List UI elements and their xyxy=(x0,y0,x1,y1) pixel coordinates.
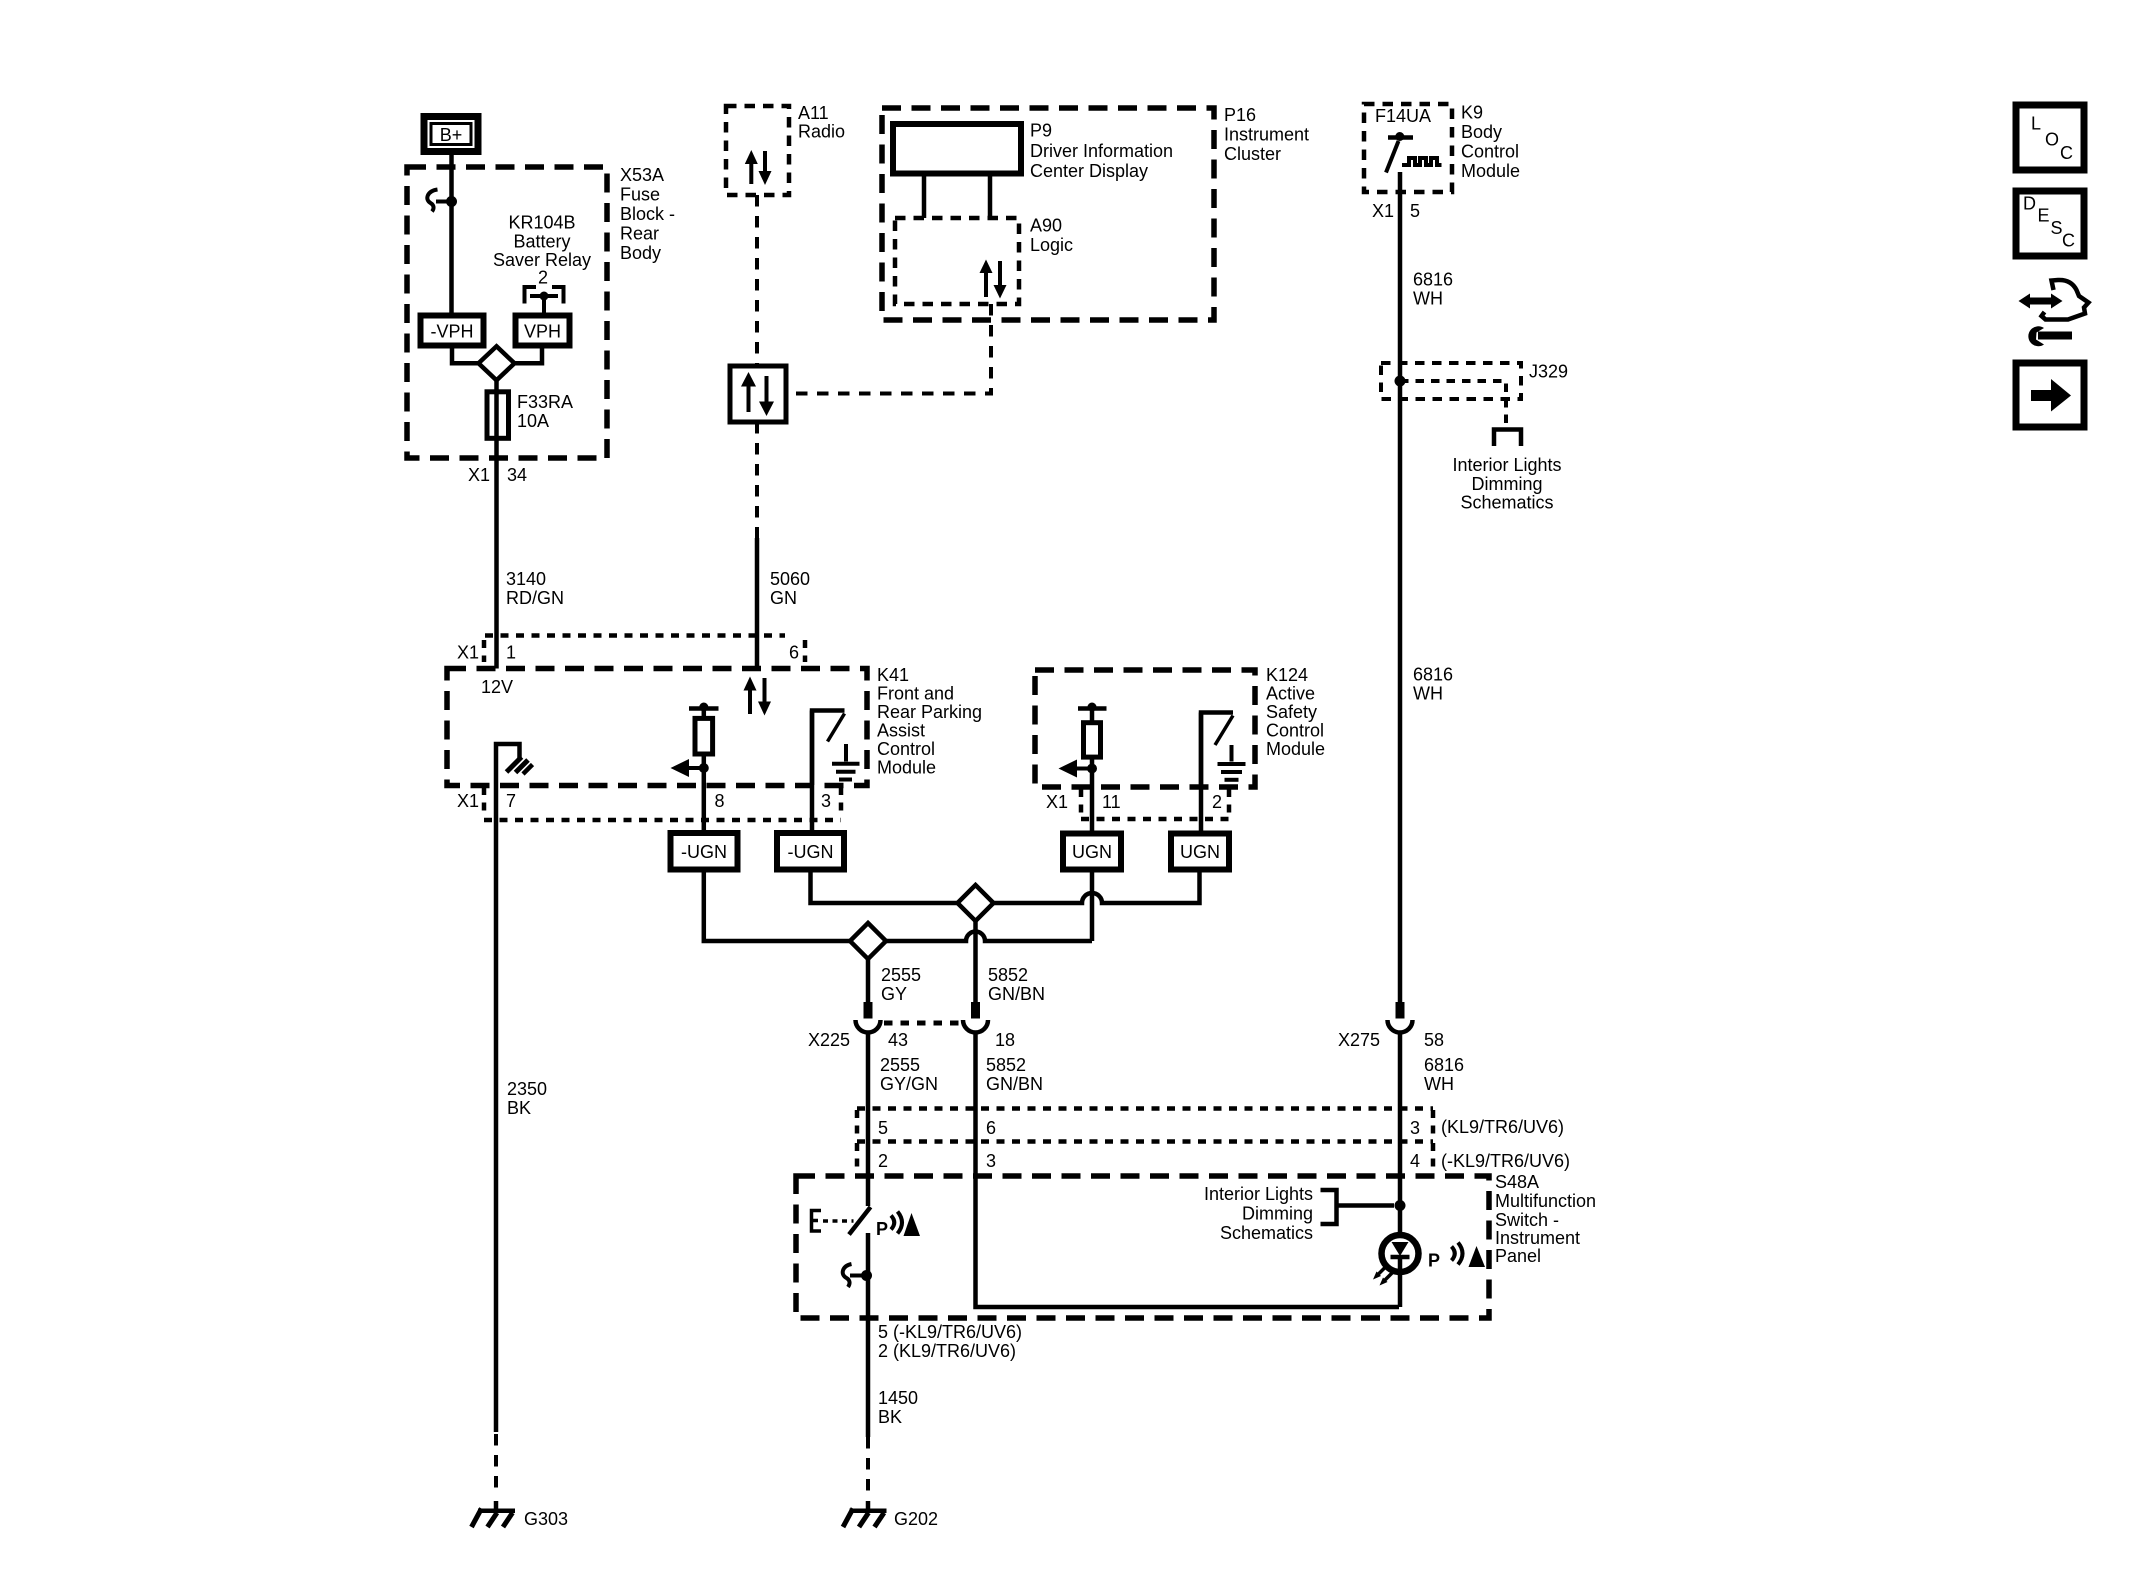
svg-text:Instrument: Instrument xyxy=(1495,1228,1580,1248)
wire diamond1 to X225 pin 18 xyxy=(973,921,978,1002)
svg-text:GY: GY xyxy=(881,984,907,1004)
internal resistor with arrow at pin 8 xyxy=(671,703,719,778)
svg-text:WH: WH xyxy=(1424,1074,1454,1094)
svg-text:X53A: X53A xyxy=(620,165,664,185)
svg-text:5852: 5852 xyxy=(988,965,1028,985)
wire B+ to -VPH xyxy=(449,155,454,316)
svg-text:-UGN: -UGN xyxy=(681,842,727,862)
wire X225-18 into S48A to LED return xyxy=(976,1033,1400,1308)
svg-text:2: 2 xyxy=(878,1151,888,1171)
S48A option pin row (KL9/TR6/UV6) xyxy=(857,1109,1570,1175)
svg-text:WH: WH xyxy=(1413,289,1443,309)
svg-text:UGN: UGN xyxy=(1072,842,1112,862)
label K41 Front and Rear Parking Assist Control Module xyxy=(877,665,982,778)
svg-text:S: S xyxy=(2051,218,2063,238)
main wire K9 to X275 xyxy=(1398,172,1403,1002)
serial data arrows in A90 xyxy=(980,260,1007,299)
svg-text:5 (-KL9/TR6/UV6): 5 (-KL9/TR6/UV6) xyxy=(878,1322,1022,1342)
svg-text:Interior Lights: Interior Lights xyxy=(1204,1184,1313,1204)
dashed wire A11 to arrow box xyxy=(755,195,759,366)
svg-text:C: C xyxy=(2062,231,2075,251)
svg-text:Rear: Rear xyxy=(620,224,659,244)
svg-text:-VPH: -VPH xyxy=(430,322,473,342)
svg-text:GN: GN xyxy=(770,588,797,608)
svg-text:5: 5 xyxy=(878,1118,888,1138)
DESC icon box xyxy=(2016,191,2084,256)
svg-text:X1: X1 xyxy=(1372,201,1394,221)
svg-text:X1: X1 xyxy=(468,465,490,485)
svg-text:X1: X1 xyxy=(457,643,479,663)
svg-text:5852: 5852 xyxy=(986,1055,1026,1075)
net label UGN (4) xyxy=(1171,834,1229,870)
svg-text:Cluster: Cluster xyxy=(1224,144,1281,164)
svg-text:X1: X1 xyxy=(457,791,479,811)
dotted connector link X225 xyxy=(884,1021,962,1026)
svg-text:2350: 2350 xyxy=(507,1079,547,1099)
wire diamond to fuse F33RA and down to K41 xyxy=(494,380,499,668)
label KR104B Battery Saver Relay 2 xyxy=(493,213,591,288)
svg-text:X225: X225 xyxy=(808,1030,850,1050)
internal ground symbol at pin 7 xyxy=(496,744,533,785)
svg-text:2: 2 xyxy=(1212,792,1222,812)
svg-text:12V: 12V xyxy=(481,677,513,697)
svg-text:Schematics: Schematics xyxy=(1460,493,1553,513)
svg-text:G303: G303 xyxy=(524,1509,568,1529)
svg-text:P: P xyxy=(1428,1251,1440,1271)
svg-text:Center Display: Center Display xyxy=(1030,161,1148,181)
relay contact -VPH box xyxy=(421,316,484,346)
svg-text:UGN: UGN xyxy=(1180,842,1220,862)
svg-text:6816: 6816 xyxy=(1413,665,1453,685)
E terminal symbol xyxy=(812,1211,854,1232)
svg-text:P9: P9 xyxy=(1030,121,1052,141)
relay coil symbol KR104B xyxy=(525,287,564,316)
wire LED to return line xyxy=(1398,1273,1403,1308)
svg-text:X275: X275 xyxy=(1338,1030,1380,1050)
off-page connector bracket xyxy=(1494,430,1521,447)
svg-text:1: 1 xyxy=(506,643,516,663)
dashed wire to G303 xyxy=(494,1434,498,1492)
LED indicator lamp xyxy=(1373,1235,1419,1286)
svg-text:2555: 2555 xyxy=(880,1055,920,1075)
driver switch and PWM symbol inside F14UA xyxy=(1386,132,1442,173)
relay contact VPH box xyxy=(516,316,570,346)
svg-text:6816: 6816 xyxy=(1413,270,1453,290)
svg-text:5060: 5060 xyxy=(770,569,810,589)
parking assist icon (switch) xyxy=(876,1212,920,1240)
wires VPH boxes to splice diamond xyxy=(452,346,478,364)
splice clip symbol on B+ wire xyxy=(427,190,457,212)
K41 parking assist module dashed box xyxy=(447,669,867,786)
svg-text:-UGN: -UGN xyxy=(788,842,834,862)
svg-text:3: 3 xyxy=(1410,1118,1420,1138)
svg-text:Radio: Radio xyxy=(798,122,845,142)
svg-text:Panel: Panel xyxy=(1495,1246,1541,1266)
net label -UGN (2) xyxy=(777,833,844,870)
wire diamond1 right with hop over UGN3 wire to UGN4 xyxy=(994,870,1200,904)
wire -UGN1 down and right to splice diamond 2 xyxy=(704,870,850,942)
splice diamond 2 xyxy=(850,923,886,959)
svg-text:Front and: Front and xyxy=(877,684,954,704)
svg-text:2555: 2555 xyxy=(881,965,921,985)
svg-text:Assist: Assist xyxy=(877,721,925,741)
svg-text:3140: 3140 xyxy=(506,569,546,589)
svg-text:Switch -: Switch - xyxy=(1495,1210,1559,1230)
svg-text:P: P xyxy=(876,1219,888,1239)
svg-text:GN/BN: GN/BN xyxy=(986,1074,1043,1094)
svg-text:Rear Parking: Rear Parking xyxy=(877,702,982,722)
connector X225 terminal 18 xyxy=(963,1002,988,1033)
serial data arrows in A11 xyxy=(745,150,772,185)
svg-text:11: 11 xyxy=(1102,792,1121,812)
svg-text:GY/GN: GY/GN xyxy=(880,1074,938,1094)
svg-text:Interior Lights: Interior Lights xyxy=(1452,455,1561,475)
svg-text:Body: Body xyxy=(1461,122,1502,142)
svg-text:(KL9/TR6/UV6): (KL9/TR6/UV6) xyxy=(1441,1117,1564,1137)
dashed wire arrow box to solid section xyxy=(755,422,759,538)
svg-text:RD/GN: RD/GN xyxy=(506,588,564,608)
LOC icon box xyxy=(2016,105,2084,170)
svg-text:Block -: Block - xyxy=(620,204,675,224)
radio A11 dashed box xyxy=(726,106,789,195)
wire UGN3 down, corner left with hop over diamond1 drop, to diamond 2 xyxy=(1090,870,1095,942)
svg-text:Control: Control xyxy=(877,739,935,759)
svg-text:Instrument: Instrument xyxy=(1224,125,1309,145)
svg-text:K9: K9 xyxy=(1461,103,1483,123)
svg-text:Dimming: Dimming xyxy=(1471,474,1542,494)
connector X225 terminal 43 xyxy=(856,1002,881,1033)
connector X275 terminal 58 xyxy=(1388,1002,1413,1033)
svg-text:P16: P16 xyxy=(1224,105,1256,125)
wire -UGN2 down and right to splice diamond 1 xyxy=(811,870,958,904)
svg-text:Safety: Safety xyxy=(1266,702,1317,722)
wire switch to G202 xyxy=(866,1233,871,1437)
svg-text:G202: G202 xyxy=(894,1509,938,1529)
svg-text:43: 43 xyxy=(888,1030,908,1050)
internal resistor with arrow at pin 11 xyxy=(1059,703,1107,778)
junction dot J329 xyxy=(1395,376,1406,387)
svg-text:Control: Control xyxy=(1266,721,1324,741)
body control module F14UA dashed box xyxy=(1364,104,1452,192)
svg-text:10A: 10A xyxy=(517,411,549,431)
svg-text:KR104B: KR104B xyxy=(508,213,575,233)
wire K41 pin 8 to -UGN xyxy=(702,754,707,833)
svg-text:X1: X1 xyxy=(1046,792,1068,812)
splice diamond 1 xyxy=(958,885,994,921)
wire K41 pin 3 to -UGN xyxy=(810,711,815,834)
dashed wire to G202 xyxy=(866,1437,870,1492)
svg-text:7: 7 xyxy=(506,791,516,811)
svg-text:Module: Module xyxy=(877,758,936,778)
svg-text:58: 58 xyxy=(1424,1030,1444,1050)
svg-text:(-KL9/TR6/UV6): (-KL9/TR6/UV6) xyxy=(1441,1151,1570,1171)
svg-text:J329: J329 xyxy=(1529,362,1568,382)
svg-text:18: 18 xyxy=(995,1030,1015,1050)
splice diamond in fuse block xyxy=(479,346,515,380)
svg-text:Logic: Logic xyxy=(1030,235,1073,255)
K124 pin row X1 11 2 xyxy=(1046,789,1229,819)
instrument cluster P16 dashed box xyxy=(882,108,1214,320)
multifunction switch S48A dashed box xyxy=(796,1176,1489,1318)
ground G303 xyxy=(472,1501,569,1529)
svg-text:2: 2 xyxy=(538,268,548,288)
svg-text:1450: 1450 xyxy=(878,1388,918,1408)
svg-text:E: E xyxy=(2038,206,2050,226)
svg-text:A11: A11 xyxy=(798,103,829,123)
internal switch to ground at pin 2 xyxy=(1201,713,1246,788)
svg-text:Control: Control xyxy=(1461,142,1519,162)
K41 top pin row X1 1 6 xyxy=(457,636,805,663)
K124 active safety module dashed box xyxy=(1035,670,1255,787)
svg-text:2 (KL9/TR6/UV6): 2 (KL9/TR6/UV6) xyxy=(878,1341,1016,1361)
logic A90 dashed box xyxy=(895,218,1019,304)
svg-text:BK: BK xyxy=(507,1098,531,1118)
fuse block X53A dashed box xyxy=(407,167,607,458)
fuse F33RA 10A xyxy=(487,392,509,439)
label Interior Lights Dimming Schematics (S48A) xyxy=(1204,1184,1313,1243)
svg-text:8: 8 xyxy=(715,791,725,811)
next page arrow icon box xyxy=(2016,363,2084,427)
ground G202 xyxy=(843,1501,938,1529)
wire 5060 GN solid to K41 pin 6 xyxy=(755,538,760,669)
wire K124 pin 11 to UGN xyxy=(1090,757,1095,834)
svg-text:Schematics: Schematics xyxy=(1220,1223,1313,1243)
svg-text:Fuse: Fuse xyxy=(620,185,660,205)
svg-text:A90: A90 xyxy=(1030,216,1062,236)
svg-text:Module: Module xyxy=(1266,739,1325,759)
svg-text:K124: K124 xyxy=(1266,665,1308,685)
off-page bracket to dimming schematics xyxy=(1321,1190,1337,1224)
svg-text:Dimming: Dimming xyxy=(1242,1204,1313,1224)
junction dot on LED feed xyxy=(1395,1200,1406,1211)
label Interior Lights Dimming Schematics xyxy=(1452,455,1561,513)
svg-text:F14UA: F14UA xyxy=(1375,106,1431,126)
wire X225-43 into S48A switch xyxy=(866,1033,871,1207)
svg-text:B+: B+ xyxy=(440,125,463,145)
parking assist icon (LED) xyxy=(1428,1243,1485,1271)
svg-text:O: O xyxy=(2045,130,2059,150)
serial data box (solid) xyxy=(730,366,786,422)
svg-text:Battery: Battery xyxy=(513,232,570,252)
splice pack J329 dashed box xyxy=(1381,363,1521,399)
label X53A Fuse Block - Rear Body xyxy=(620,165,675,263)
svg-text:34: 34 xyxy=(507,465,527,485)
K41 bottom pin row X1 7 8 3 xyxy=(457,787,841,820)
svg-text:6: 6 xyxy=(789,643,799,663)
svg-text:Body: Body xyxy=(620,243,661,263)
svg-text:C: C xyxy=(2060,143,2073,163)
svg-text:BK: BK xyxy=(878,1407,902,1427)
svg-text:Multifunction: Multifunction xyxy=(1495,1191,1596,1211)
svg-text:Driver Information: Driver Information xyxy=(1030,141,1173,161)
svg-text:K41: K41 xyxy=(877,665,909,685)
svg-text:GN/BN: GN/BN xyxy=(988,984,1045,1004)
label K124 Active Safety Control Module xyxy=(1266,665,1325,759)
internal switch to ground at pin 3 xyxy=(812,711,860,786)
svg-text:F33RA: F33RA xyxy=(517,392,573,412)
dimmer switch blade xyxy=(849,1207,871,1235)
net label UGN (3) xyxy=(1063,834,1121,870)
wire X275-58 into S48A to LED xyxy=(1398,1033,1403,1235)
wire K124 pin 2 to UGN xyxy=(1199,713,1204,834)
svg-text:3: 3 xyxy=(821,791,831,811)
vehicle data icon (arrow, car, wrench) xyxy=(2019,280,2089,346)
svg-text:WH: WH xyxy=(1413,684,1443,704)
splice clip symbol below switch xyxy=(843,1264,872,1287)
svg-text:L: L xyxy=(2031,114,2041,134)
dashed wire A90 logic to serial data box xyxy=(786,304,991,394)
display P9 box xyxy=(893,124,1021,174)
svg-text:4: 4 xyxy=(1410,1151,1420,1171)
svg-text:6816: 6816 xyxy=(1424,1055,1464,1075)
wires P9 to A90 xyxy=(922,174,927,219)
svg-text:3: 3 xyxy=(986,1151,996,1171)
dashed branch to other schematic xyxy=(1400,381,1506,426)
serial data arrows inside K41 at pin 6 xyxy=(744,677,772,716)
wire diamond2 to X225 pin 43 xyxy=(866,959,871,1002)
svg-text:D: D xyxy=(2023,194,2036,214)
battery B+ terminal xyxy=(424,117,478,152)
label S48A Multifunction Switch - Instrument Panel xyxy=(1495,1172,1596,1266)
svg-text:5: 5 xyxy=(1410,201,1420,221)
svg-text:Active: Active xyxy=(1266,684,1315,704)
net label -UGN (1) xyxy=(671,833,738,870)
svg-text:S48A: S48A xyxy=(1495,1172,1539,1192)
svg-text:Module: Module xyxy=(1461,161,1520,181)
wire K41 pin 7 to G303 (2350 BK) xyxy=(494,785,499,1432)
svg-text:6: 6 xyxy=(986,1118,996,1138)
svg-text:VPH: VPH xyxy=(524,322,561,342)
